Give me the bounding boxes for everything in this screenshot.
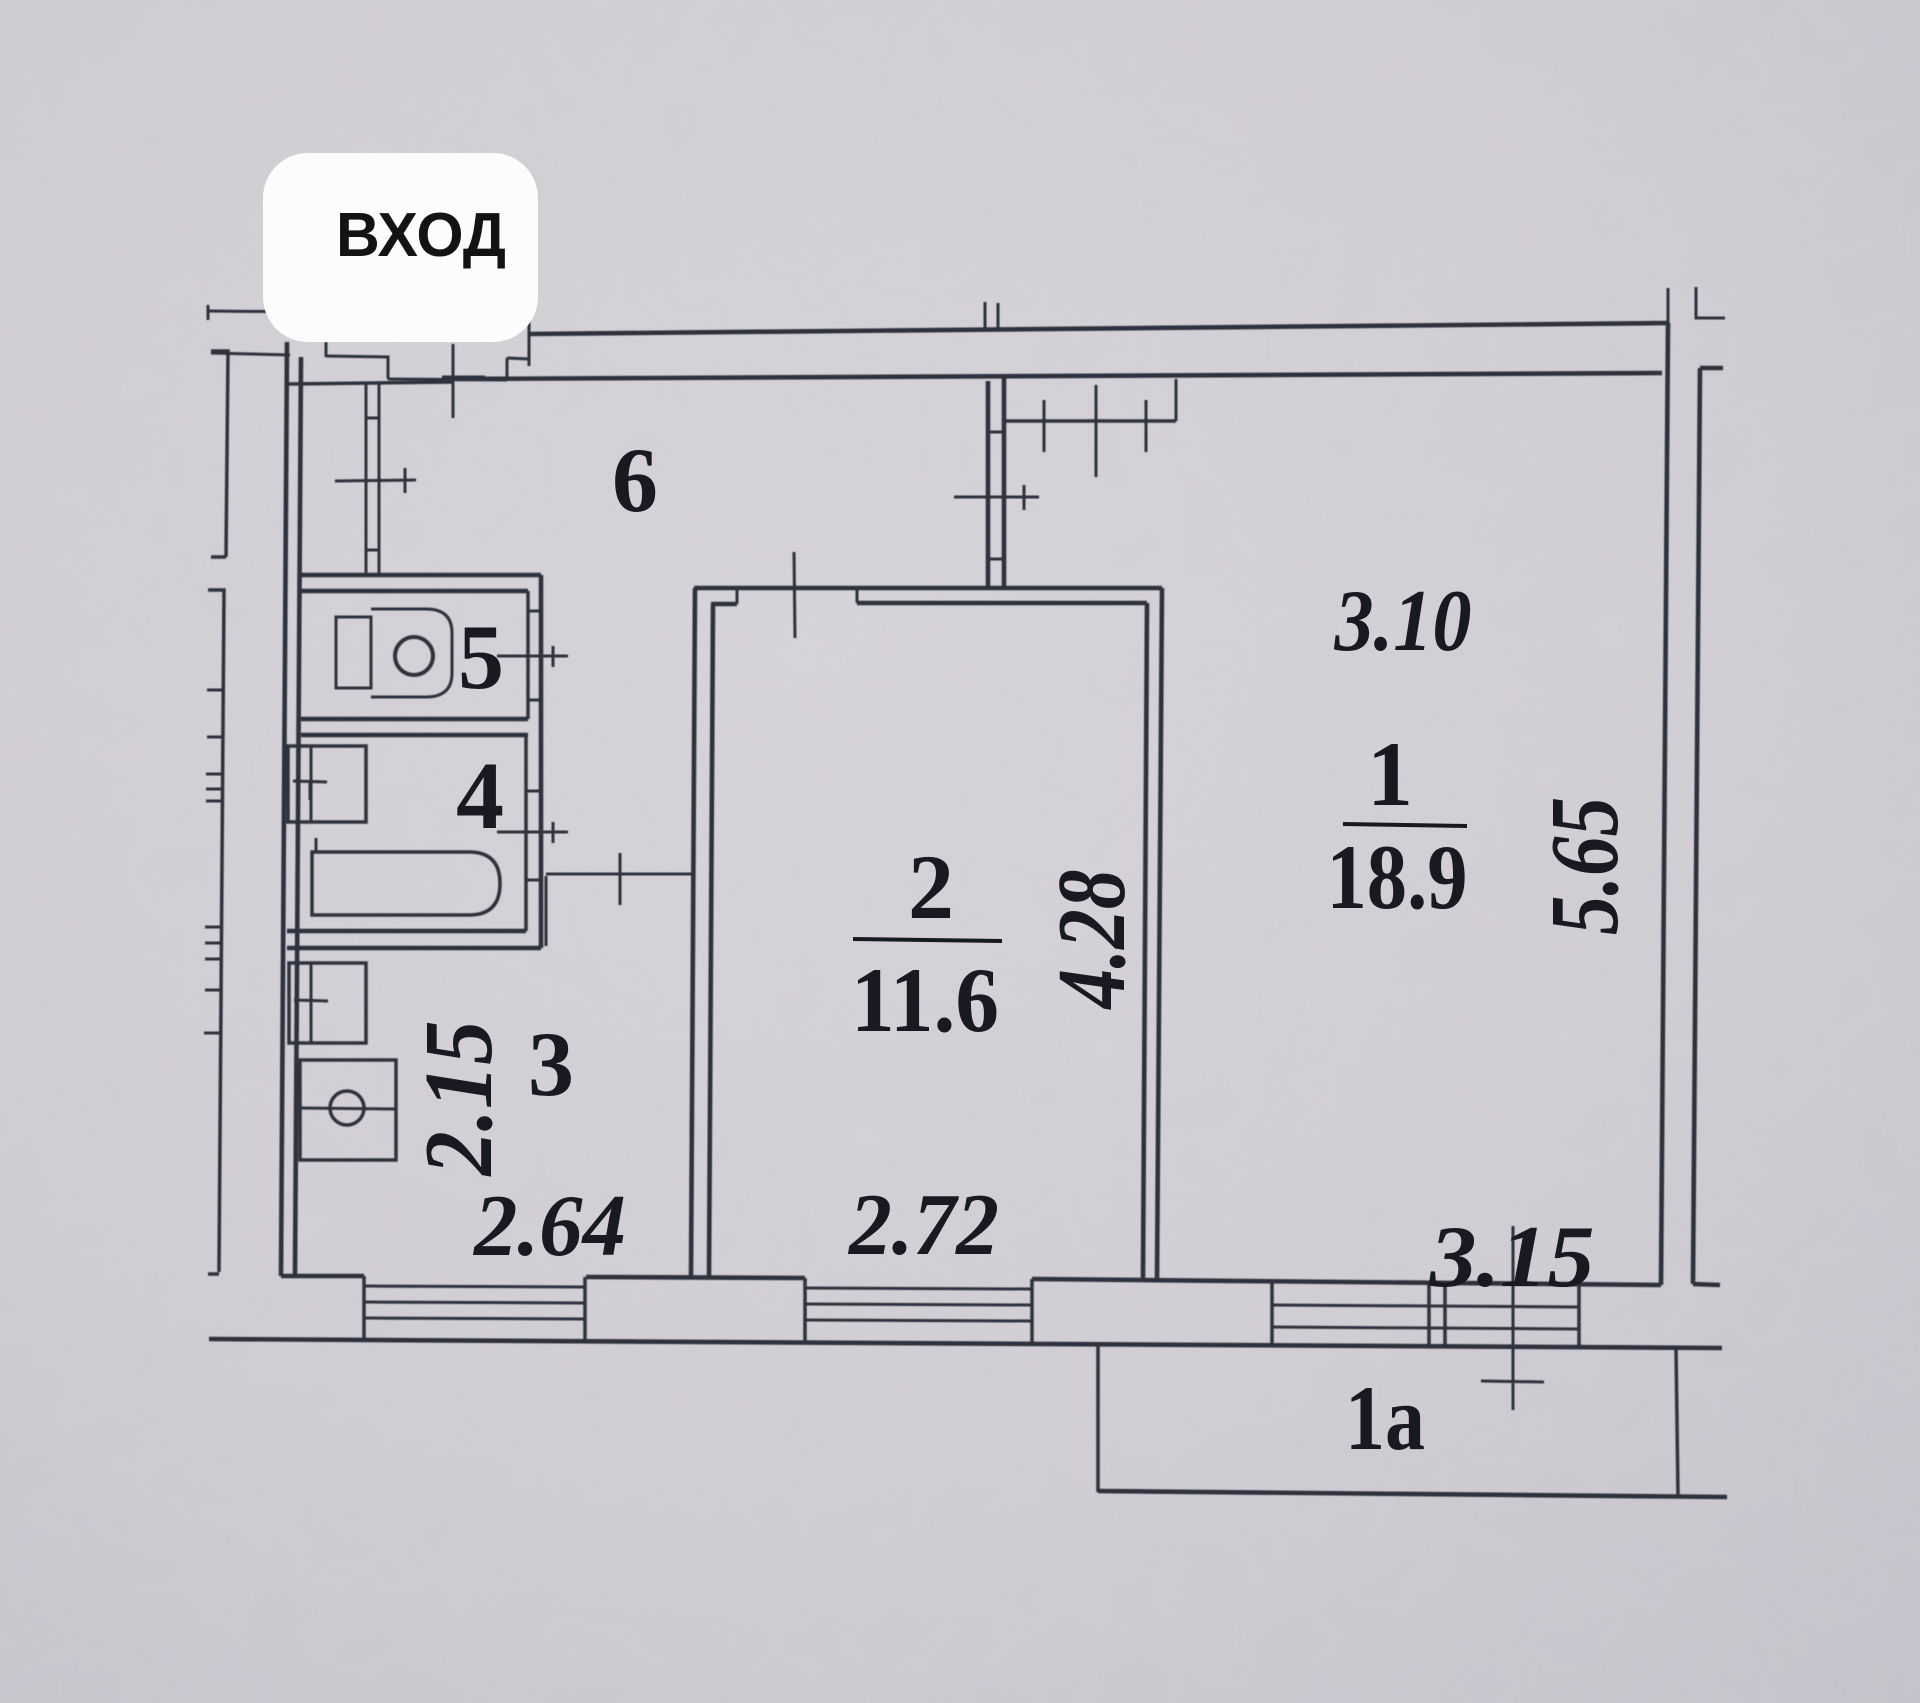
wire: room2 door axis cross xyxy=(794,552,795,638)
svg-text:3: 3 xyxy=(528,1013,574,1115)
wire: hall-room1 wall right line xyxy=(1002,378,1007,588)
room2 window top line xyxy=(805,1288,1032,1289)
wire: bath door axis cross xyxy=(497,822,568,843)
kitchen sink xyxy=(289,963,366,1043)
wire: balcony right wall xyxy=(1676,1348,1678,1495)
bath sink faucet T xyxy=(293,781,327,800)
wire: room2 top wall outer xyxy=(694,586,1162,591)
svg-text:2.72: 2.72 xyxy=(847,1177,999,1274)
stove burner circle xyxy=(330,1091,364,1125)
fraction line room 1 xyxy=(1343,824,1467,826)
wire: bath door jambs xyxy=(526,791,541,880)
wire: entrance zig 2 xyxy=(388,379,507,380)
svg-text:1а: 1а xyxy=(1345,1367,1425,1469)
svg-text:2.64: 2.64 xyxy=(472,1178,626,1275)
fraction line room 2 xyxy=(853,939,1002,941)
closet room1 right end xyxy=(1175,379,1178,421)
wire: left bracket B xyxy=(208,590,224,1274)
wire: toilet door jambs xyxy=(528,611,541,700)
stove mid line xyxy=(300,1108,396,1109)
svg-text:2.15: 2.15 xyxy=(405,1021,512,1178)
svg-text:ВХОД: ВХОД xyxy=(336,201,506,270)
wire: room2-room1 wall right line xyxy=(1157,588,1162,1279)
wire: vent tick 1 on top wall xyxy=(984,302,987,331)
wire: neighbor wall L mark xyxy=(1696,287,1725,318)
wire: room2 door jambs xyxy=(737,588,857,604)
wire: entrance door jamb xyxy=(325,342,328,357)
bath sink xyxy=(288,746,366,822)
wire: hall inner wall below entrance xyxy=(289,382,453,384)
bathtub faucet tick xyxy=(315,838,318,852)
wire: bottom facade line xyxy=(209,1339,1722,1348)
room2 window jambs xyxy=(805,1278,1032,1343)
closet room1 ticks xyxy=(1044,385,1146,477)
wire: kitchen-room2 wall left line xyxy=(691,588,695,1277)
room1 window sill lines xyxy=(1272,1305,1579,1329)
room2 window sill lines xyxy=(805,1304,1032,1321)
wire: kitchen-room2 wall right line xyxy=(709,604,713,1277)
wire: balcony door axis cross xyxy=(1481,1226,1544,1410)
toilet tank xyxy=(336,617,371,688)
closet hall right wall xyxy=(366,384,379,575)
closet hall door cross xyxy=(335,468,416,493)
svg-text:1: 1 xyxy=(1367,723,1413,825)
kitchen window jambs xyxy=(364,1276,585,1341)
white rounded box xyxy=(263,153,538,342)
wire: room2 top wall inner xyxy=(711,603,1147,604)
wire: entrance door axis cross xyxy=(442,344,485,418)
wire: vent tick 2 on top wall xyxy=(997,303,1000,331)
wire: top outer wall xyxy=(529,323,1668,334)
wire: apartment left wall inner xyxy=(295,357,301,1276)
svg-text:18.9: 18.9 xyxy=(1327,826,1468,928)
svg-text:4.28: 4.28 xyxy=(1038,870,1145,1011)
bath sink divider xyxy=(310,746,313,822)
wire: bottom inner wall segments xyxy=(281,1276,1661,1285)
wire: toilet door axis cross xyxy=(497,646,568,667)
wire: balcony bottom wall xyxy=(1098,1491,1727,1497)
wire: top wall right end tick xyxy=(1667,288,1670,324)
svg-text:5.65: 5.65 xyxy=(1531,797,1638,935)
wire: kitchen door line xyxy=(546,873,691,876)
wire: toilet right inner wall xyxy=(526,591,530,719)
wire: kitchen door axis cross xyxy=(619,853,622,905)
svg-text:11.6: 11.6 xyxy=(851,949,999,1051)
wire: porch inner line left of entrance door xyxy=(211,353,290,355)
wire: room2-room1 wall left line xyxy=(1143,603,1147,1278)
wire: room1 door jambs xyxy=(988,432,1004,559)
svg-text:5: 5 xyxy=(458,606,504,708)
svg-text:6: 6 xyxy=(612,429,658,531)
wire: left bracket A xyxy=(211,351,228,557)
wire: toilet/bath right outer wall xyxy=(539,575,544,948)
wire: room1 door axis cross xyxy=(954,485,1039,510)
wire: right wall inner line xyxy=(1693,368,1723,1285)
wire: toilet top wall xyxy=(301,575,541,591)
wire: porch outer left end tick xyxy=(207,305,210,320)
wire: porch outer top line xyxy=(207,311,529,314)
room1 window jambs xyxy=(1272,1281,1579,1347)
wire: left hatch dashes xyxy=(204,690,222,1033)
wire: bath bottom wall xyxy=(287,931,541,948)
svg-text:3.15: 3.15 xyxy=(1428,1209,1594,1306)
bathtub xyxy=(312,852,500,915)
kitchen sink divider xyxy=(310,963,313,1043)
svg-text:3.10: 3.10 xyxy=(1334,573,1472,670)
wire: inner top wall line xyxy=(455,373,1662,379)
stove xyxy=(300,1060,396,1160)
wire: bath right inner wall xyxy=(524,735,528,931)
wire: porch step vertical xyxy=(528,312,531,366)
wire: corridor jamb above kitchen door xyxy=(545,876,548,946)
wire: entrance zig 1 xyxy=(326,356,388,379)
wire: apartment left wall outer xyxy=(281,342,287,1276)
kitchen window top line xyxy=(364,1286,585,1287)
svg-text:2: 2 xyxy=(908,836,954,938)
svg-text:4: 4 xyxy=(456,742,504,849)
toilet bowl circle xyxy=(395,637,433,675)
toilet bowl xyxy=(371,609,452,697)
wire: toilet bottom wall xyxy=(301,719,528,735)
wire: right wall outer line xyxy=(1661,323,1668,1285)
wire: balcony left wall xyxy=(1096,1346,1100,1492)
kitchen window sill lines xyxy=(364,1302,585,1319)
kitchen sink faucet T xyxy=(294,1000,328,1019)
wire: entrance zig 3 xyxy=(507,358,529,380)
wire: hall-room1 wall left line xyxy=(986,381,991,588)
closet hall connectors xyxy=(366,418,379,550)
closet room1 bottom line xyxy=(1004,419,1176,423)
